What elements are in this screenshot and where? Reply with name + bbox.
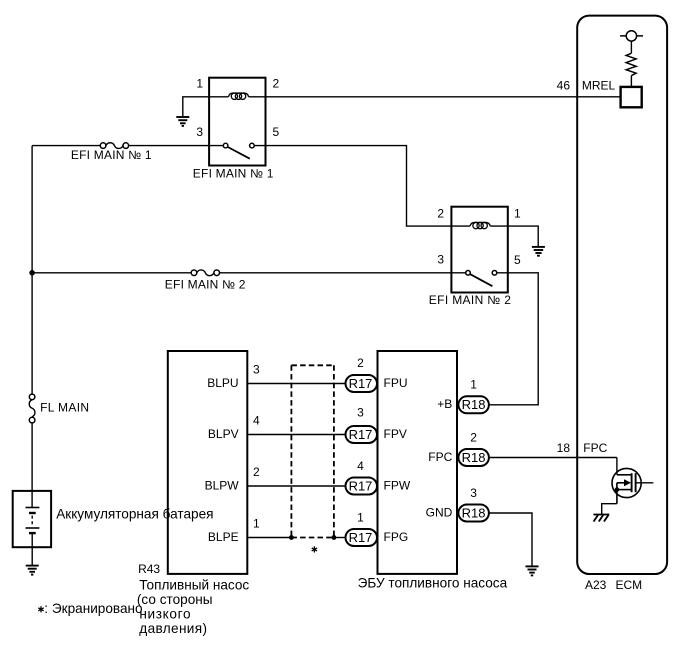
- svg-text:3: 3: [253, 363, 260, 377]
- ground: fuel pump ECU ground: [526, 566, 539, 575]
- resistor: MREL pull-up: [626, 53, 636, 75]
- label: shield footnote: [38, 606, 43, 612]
- svg-text:3: 3: [470, 486, 477, 500]
- wire: BLPW to connector R17: [247, 485, 345, 487]
- connector R17 pin 4: [346, 478, 378, 495]
- svg-text:ECM: ECM: [616, 578, 643, 592]
- svg-text:R17: R17: [349, 427, 373, 442]
- svg-text:EFI MAIN № 2: EFI MAIN № 2: [165, 277, 246, 291]
- wire: relay 1 coil pin 1 to ground: [183, 97, 229, 117]
- svg-text:4: 4: [253, 414, 260, 428]
- label: shield asterisk: [312, 546, 317, 552]
- wire: FL MAIN fuse to battery plate: [31, 423, 33, 508]
- svg-text:1: 1: [196, 77, 203, 91]
- fuse EFI MAIN No.1: [100, 143, 128, 149]
- node: junction of EFI MAIN No.2 branch on left bus: [29, 270, 35, 276]
- wire: relay 1 pin 3 stub inside box: [209, 145, 226, 147]
- svg-text:5: 5: [514, 253, 521, 267]
- ECM A23 box: [577, 16, 667, 574]
- svg-text:R17: R17: [349, 530, 373, 545]
- battery cell plates: [26, 508, 40, 534]
- svg-text:давления): давления): [139, 621, 207, 636]
- relay EFI MAIN No.2 box: [451, 207, 507, 293]
- wire: relay 1 coil pin 2 to ECM MREL driver: [249, 96, 621, 98]
- svg-text:2: 2: [437, 207, 444, 221]
- battery box: [13, 491, 51, 547]
- svg-text:1: 1: [253, 517, 260, 531]
- wire: GND to ground: [489, 513, 532, 566]
- svg-text:46: 46: [557, 79, 571, 93]
- wire: FPC to ECM pin 18: [489, 457, 617, 459]
- svg-text:FPG: FPG: [384, 530, 409, 544]
- wire: battery positive bus (left vertical, EFI MAIN fuse row to FL MAIN fuse): [31, 146, 33, 395]
- connector R18 pin 2 (FPC): [458, 449, 489, 466]
- relay 2 switch contacts and blade: [466, 271, 497, 287]
- ground: chassis ground at MOSFET source: [593, 515, 609, 522]
- wire: relay 2 pin 5 to fuel pump ECU +B: [489, 273, 538, 405]
- wire: resistor to MREL driver: [630, 76, 632, 87]
- node: shield junction left: [289, 535, 294, 540]
- wire: relay 1 pin 5 to relay 2 pin 2: [252, 146, 452, 227]
- wire: BLPE to connector R17 (shielded, dashed section): [247, 537, 291, 539]
- svg-text:2: 2: [253, 465, 260, 479]
- connector R18 pin 1 (+B): [458, 396, 489, 413]
- svg-text:FPC: FPC: [428, 450, 452, 464]
- svg-text:BLPE: BLPE: [208, 530, 239, 544]
- svg-text:ЭБУ топливного насоса: ЭБУ топливного насоса: [358, 576, 508, 591]
- svg-text:: Экранировано: : Экранировано: [44, 601, 142, 616]
- ground: battery ground: [26, 566, 39, 575]
- relay EFI MAIN No.1 box: [209, 78, 265, 166]
- svg-text:R18: R18: [462, 450, 486, 465]
- svg-text:R17: R17: [349, 376, 373, 391]
- svg-text:3: 3: [437, 253, 444, 267]
- ground: relay 1 coil ground: [176, 117, 189, 126]
- svg-text:5: 5: [273, 125, 280, 139]
- svg-text:FPV: FPV: [384, 427, 407, 441]
- svg-text:GND: GND: [426, 505, 453, 519]
- svg-text:3: 3: [357, 406, 364, 420]
- svg-text:R17: R17: [349, 478, 373, 493]
- wire: relay 2 coil pin 1 to ground: [490, 226, 538, 247]
- svg-text:FPC: FPC: [583, 441, 607, 455]
- svg-text:R43: R43: [138, 562, 160, 576]
- svg-text:FL MAIN: FL MAIN: [40, 401, 89, 415]
- wire: MOSFET source to chassis ground: [602, 504, 617, 515]
- svg-text:2: 2: [273, 77, 280, 91]
- wire: left bus to fuse EFI MAIN No.1: [32, 145, 100, 147]
- svg-text:R18: R18: [462, 397, 486, 412]
- node: shield junction right: [332, 535, 337, 540]
- svg-text:BLPV: BLPV: [208, 427, 239, 441]
- MREL driver block: [621, 87, 642, 107]
- svg-text:BLPU: BLPU: [207, 376, 238, 390]
- svg-text:BLPW: BLPW: [205, 479, 240, 493]
- svg-text:FPW: FPW: [384, 479, 411, 493]
- transistor: FPC output MOSFET: [612, 458, 653, 504]
- fuse EFI MAIN No.2: [191, 270, 219, 276]
- connector R17 pin 1: [346, 529, 378, 546]
- svg-text:2: 2: [357, 356, 364, 370]
- svg-text:(со стороны: (со стороны: [137, 592, 213, 607]
- relay 2 coil L: [470, 222, 490, 228]
- svg-text:Топливный насос: Топливный насос: [139, 577, 249, 592]
- connector R17 pin 2: [346, 375, 378, 392]
- svg-text:низкого: низкого: [139, 606, 191, 621]
- fuel pump box R43: [168, 351, 248, 574]
- svg-text:18: 18: [557, 441, 571, 455]
- wire: relay 2 pin 3 stub inside box: [451, 272, 468, 274]
- svg-text:A23: A23: [585, 578, 607, 592]
- wire: BLPV to connector R17: [247, 434, 345, 436]
- relay 1 coil L: [228, 93, 248, 99]
- svg-text:FPU: FPU: [384, 376, 408, 390]
- svg-text:2: 2: [470, 430, 477, 444]
- ground: relay 2 coil ground: [532, 247, 545, 256]
- svg-text:R18: R18: [462, 505, 486, 520]
- connector R18 pin 3 (GND): [458, 505, 489, 522]
- fuel pump ECU box: [378, 351, 458, 574]
- fuse FL MAIN: [29, 394, 35, 423]
- connector R17 pin 3: [346, 426, 378, 443]
- svg-text:1: 1: [357, 511, 364, 525]
- svg-text:MREL: MREL: [582, 79, 616, 93]
- relay 1 switch contacts and blade: [223, 143, 254, 158]
- wire: fuse EFI MAIN No.1 to relay pin 3: [129, 145, 210, 147]
- shield: dashed screen box around pump wires: [291, 365, 334, 537]
- wire: relay 2 coil pin 2 stub: [451, 225, 470, 227]
- svg-text:1: 1: [470, 377, 477, 391]
- wire: fuse EFI MAIN No.2 to relay 2 pin 3: [220, 272, 452, 274]
- svg-text:4: 4: [357, 459, 364, 473]
- svg-text:1: 1: [514, 207, 521, 221]
- wire: power symbol to resistor: [630, 41, 632, 53]
- wire: battery negative to ground: [31, 533, 33, 566]
- svg-text:EFI MAIN № 1: EFI MAIN № 1: [71, 148, 152, 162]
- svg-text:+B: +B: [437, 397, 452, 411]
- svg-text:3: 3: [196, 125, 203, 139]
- svg-text:EFI MAIN № 1: EFI MAIN № 1: [193, 166, 274, 180]
- svg-text:Аккумуляторная батарея: Аккумуляторная батарея: [56, 507, 213, 522]
- power: battery voltage symbol inside ECM: [620, 31, 643, 41]
- svg-text:EFI MAIN № 2: EFI MAIN № 2: [429, 293, 511, 307]
- wire: BLPU to connector R17: [247, 383, 345, 385]
- wire: left bus to fuse EFI MAIN No.2: [32, 272, 191, 274]
